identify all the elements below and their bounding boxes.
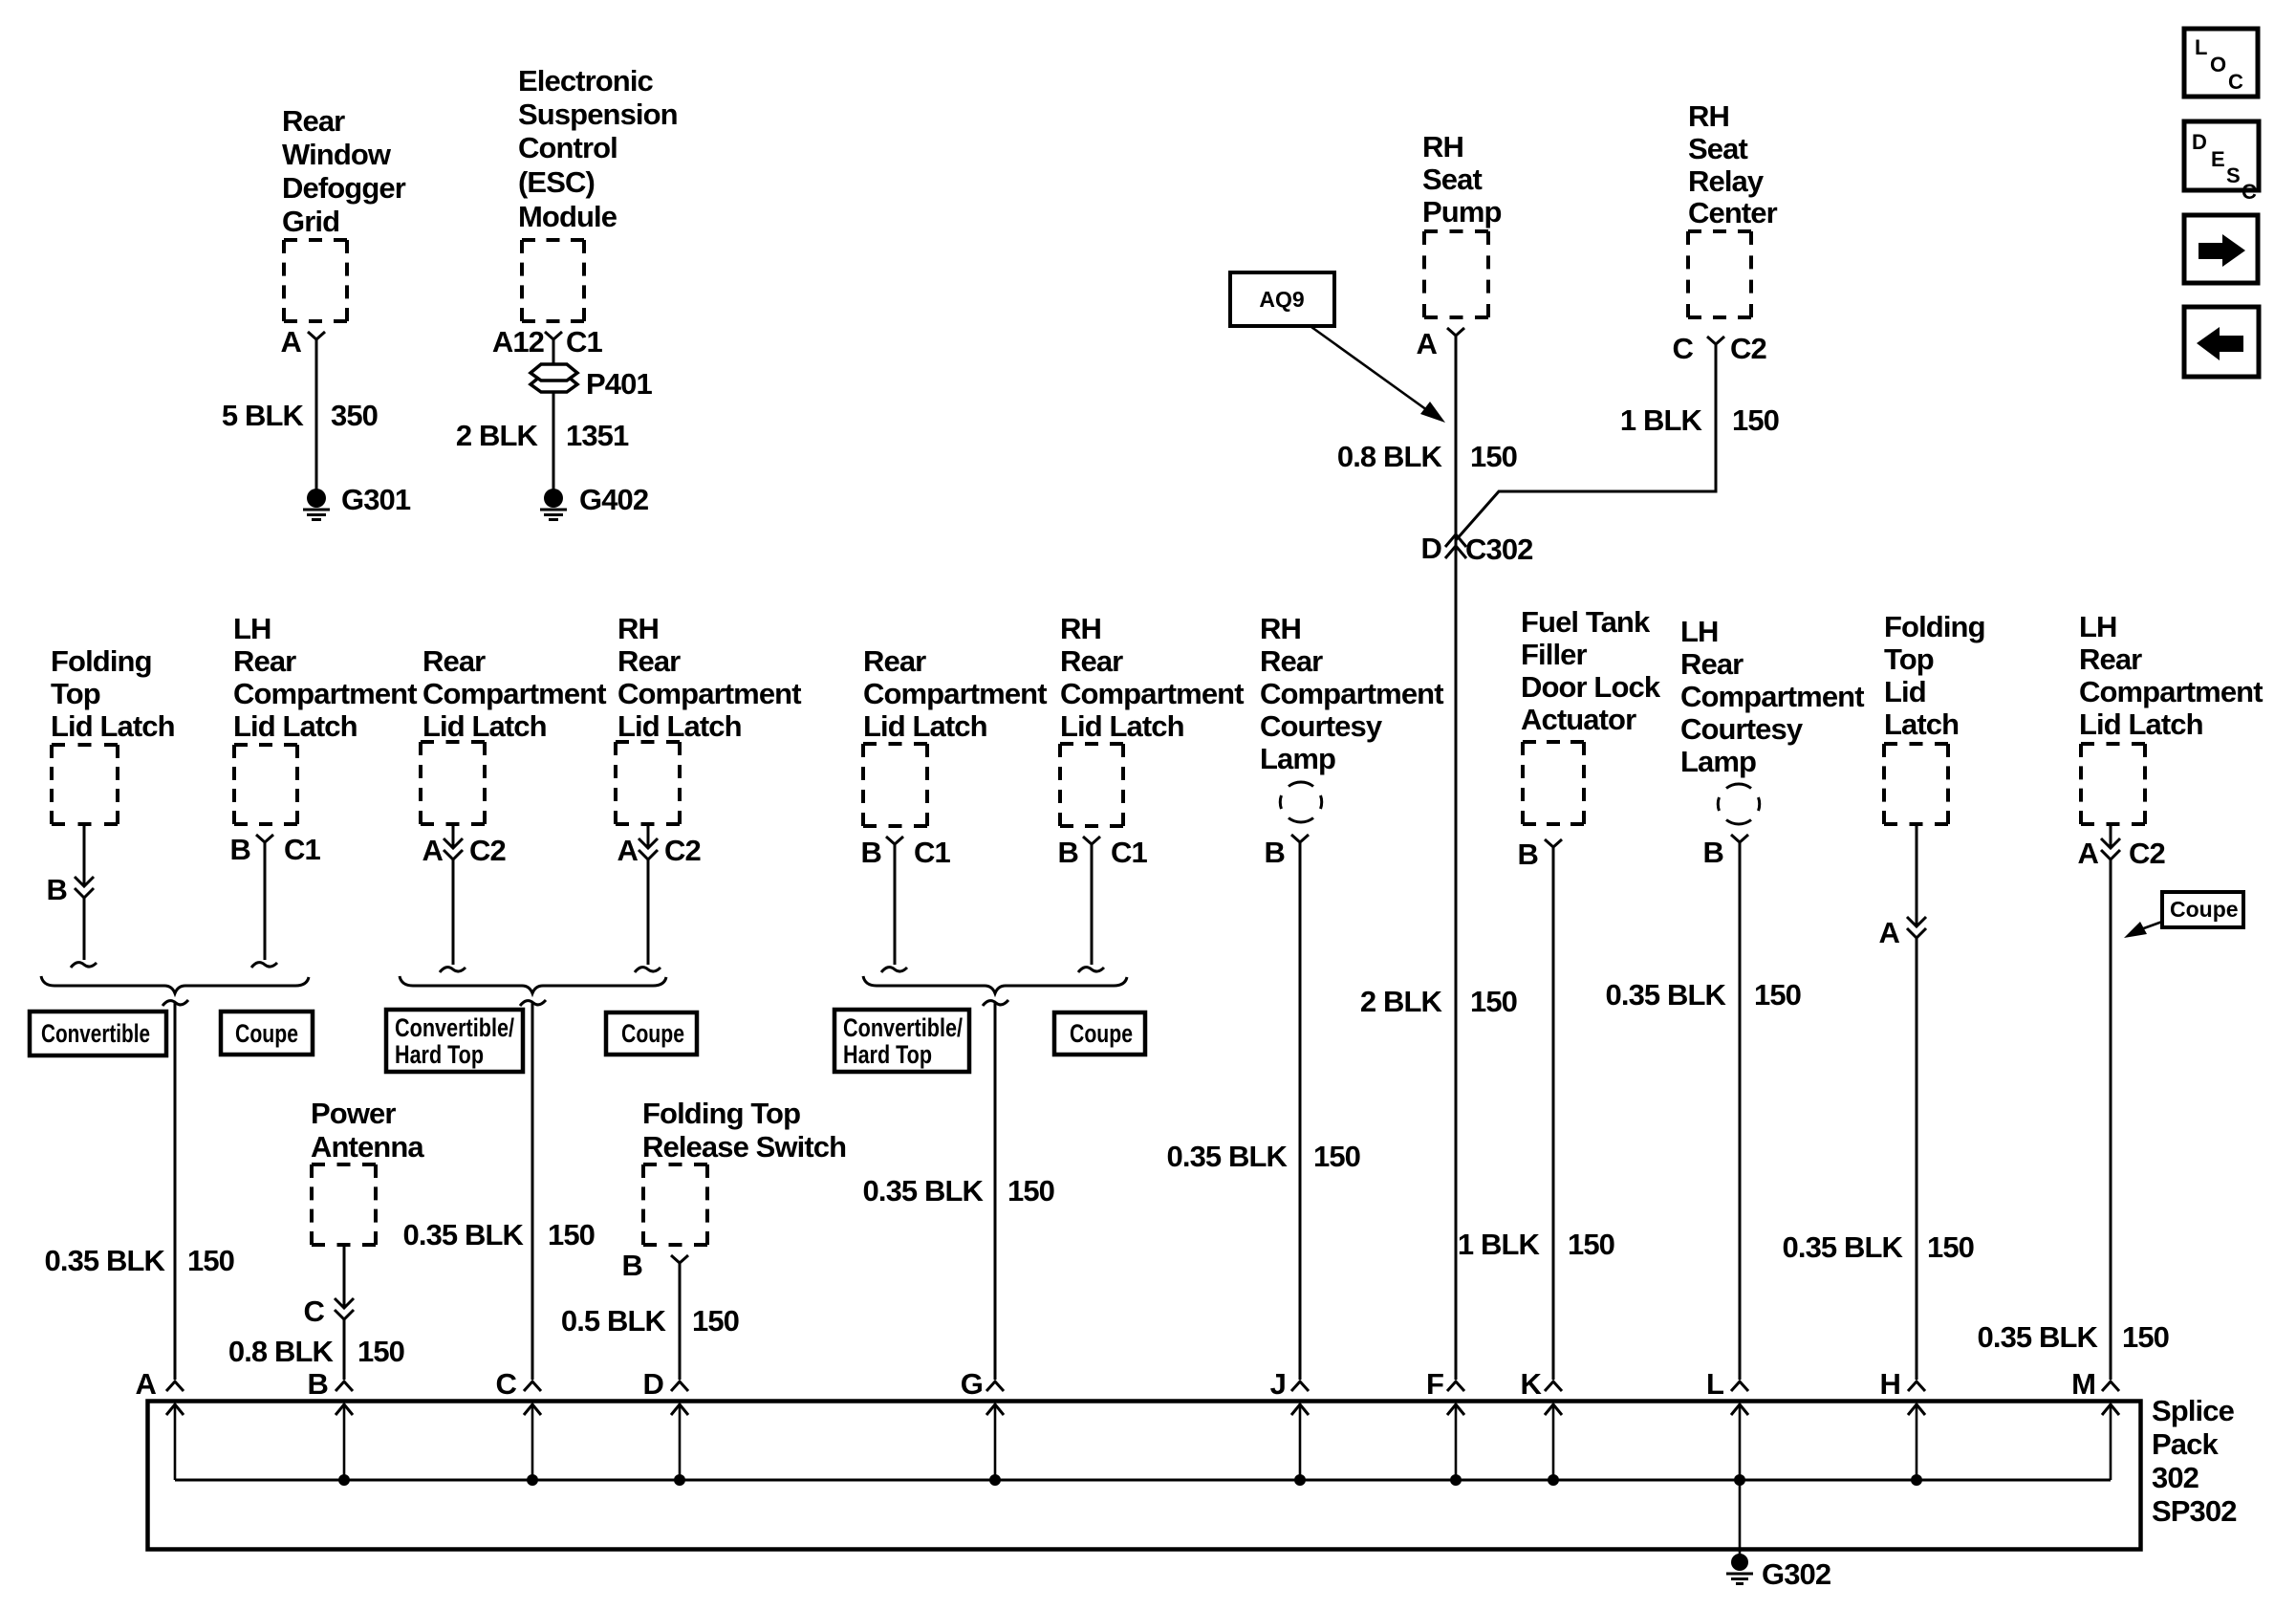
wire from brace to splice pack terminal C bbox=[531, 1003, 534, 1380]
pin A12 C1 of ESC bbox=[492, 325, 603, 359]
label 0.35 BLK 150 wire G bbox=[863, 1174, 1055, 1207]
svg-text:Module: Module bbox=[518, 200, 617, 233]
svg-text:P401: P401 bbox=[586, 367, 652, 401]
svg-text:Rear: Rear bbox=[422, 644, 486, 678]
svg-text:0.35 BLK: 0.35 BLK bbox=[1978, 1320, 2099, 1354]
pin C C2 of relay center bbox=[1673, 332, 1766, 365]
rear compartment lid latch label (first) bbox=[422, 644, 606, 743]
wire from rear compartment lid latch (first) bbox=[440, 824, 466, 972]
coupe callout box with arrow bbox=[2124, 892, 2243, 938]
svg-text:G302: G302 bbox=[1762, 1557, 1830, 1591]
label 0.35 BLK 150 wire J bbox=[1167, 1140, 1361, 1173]
svg-text:Folding: Folding bbox=[1884, 610, 1985, 643]
svg-text:Compartment: Compartment bbox=[863, 677, 1047, 710]
svg-text:SP302: SP302 bbox=[2152, 1494, 2237, 1528]
svg-text:Door Lock: Door Lock bbox=[1521, 670, 1661, 704]
svg-text:C2: C2 bbox=[469, 834, 506, 867]
pin B of LH courtesy lamp bbox=[1703, 835, 1749, 869]
folding top lid latch box (right) bbox=[1884, 744, 1948, 824]
pin A of pump bbox=[1417, 327, 1465, 360]
svg-text:0.8 BLK: 0.8 BLK bbox=[228, 1335, 335, 1368]
pin B of folding top lid latch bbox=[47, 873, 95, 906]
svg-text:150: 150 bbox=[548, 1218, 595, 1251]
svg-text:Rear: Rear bbox=[1260, 644, 1323, 678]
LH rear compartment lid latch label (right) bbox=[2079, 610, 2263, 741]
svg-text:Hard Top: Hard Top bbox=[395, 1040, 484, 1069]
svg-text:Lid Latch: Lid Latch bbox=[422, 709, 547, 743]
LH rear compartment lid latch box (right) bbox=[2081, 744, 2145, 824]
svg-text:AQ9: AQ9 bbox=[1259, 287, 1304, 312]
bus line inside splice pack bbox=[175, 1479, 2111, 1482]
pin B of fuel tank actuator bbox=[1518, 838, 1563, 871]
svg-text:Seat: Seat bbox=[1688, 132, 1747, 165]
svg-text:Compartment: Compartment bbox=[1680, 680, 1864, 713]
fuel tank filler door lock actuator box bbox=[1523, 742, 1584, 824]
svg-text:Window: Window bbox=[282, 138, 392, 171]
terminal D bbox=[643, 1367, 689, 1486]
svg-text:Release Switch: Release Switch bbox=[642, 1130, 846, 1164]
RH rear compartment lid latch box (second) bbox=[1060, 744, 1123, 826]
brace convertible/hard top group 1 bbox=[400, 976, 666, 1006]
svg-text:Latch: Latch bbox=[1884, 707, 1959, 741]
svg-text:Rear: Rear bbox=[1060, 644, 1123, 678]
svg-text:Convertible/: Convertible/ bbox=[843, 1013, 963, 1042]
svg-text:Compartment: Compartment bbox=[2079, 675, 2263, 708]
ESC module box bbox=[522, 240, 584, 321]
svg-text:150: 150 bbox=[692, 1304, 739, 1338]
svg-text:150: 150 bbox=[1754, 978, 1801, 1012]
pin C of power antenna bbox=[304, 1295, 355, 1328]
svg-text:Fuel Tank: Fuel Tank bbox=[1521, 605, 1651, 639]
label 0.8 BLK 150 bbox=[1337, 440, 1517, 473]
svg-text:G301: G301 bbox=[341, 483, 411, 516]
wire from brace to splice pack terminal G bbox=[994, 1003, 997, 1380]
svg-text:150: 150 bbox=[2122, 1320, 2169, 1354]
svg-text:C302: C302 bbox=[1465, 533, 1533, 566]
svg-text:Folding Top: Folding Top bbox=[642, 1097, 800, 1130]
svg-text:A: A bbox=[617, 834, 639, 867]
svg-text:150: 150 bbox=[1470, 985, 1517, 1018]
svg-text:A: A bbox=[1417, 327, 1438, 360]
pin B C1 of LH rear compartment lid latch bbox=[230, 833, 321, 866]
wire from rear compartment lid latch (second) bbox=[881, 844, 907, 972]
label 1 BLK 150 bbox=[1620, 403, 1779, 437]
rear compartment lid latch box (first) bbox=[421, 742, 485, 824]
svg-text:C2: C2 bbox=[664, 834, 701, 867]
coupe label box 1 bbox=[221, 1012, 313, 1055]
svg-text:Compartment: Compartment bbox=[1060, 677, 1244, 710]
svg-text:F: F bbox=[1426, 1367, 1443, 1401]
svg-text:Lid Latch: Lid Latch bbox=[51, 709, 175, 743]
svg-text:150: 150 bbox=[1568, 1228, 1614, 1261]
svg-text:Compartment: Compartment bbox=[1260, 677, 1443, 710]
svg-text:C: C bbox=[2242, 180, 2257, 204]
terminal A bbox=[136, 1367, 184, 1480]
svg-text:C2: C2 bbox=[2129, 837, 2165, 870]
terminal H bbox=[1880, 1367, 1926, 1486]
terminal F bbox=[1426, 1367, 1464, 1486]
wire 5 BLK 350 bbox=[315, 339, 318, 490]
svg-text:Suspension: Suspension bbox=[518, 98, 678, 131]
svg-text:0.35 BLK: 0.35 BLK bbox=[1783, 1230, 1904, 1264]
svg-text:Splice: Splice bbox=[2152, 1394, 2235, 1427]
svg-text:Rear: Rear bbox=[233, 644, 296, 678]
svg-text:B: B bbox=[1518, 838, 1539, 871]
splice pack 302 box bbox=[148, 1402, 2141, 1550]
LH courtesy lamp symbol bbox=[1718, 784, 1759, 824]
svg-text:D: D bbox=[1421, 532, 1442, 565]
svg-text:(ESC): (ESC) bbox=[518, 165, 595, 199]
RH rear compartment courtesy lamp label bbox=[1260, 612, 1443, 775]
terminal G bbox=[961, 1367, 1004, 1486]
svg-text:B: B bbox=[47, 873, 68, 906]
svg-text:Compartment: Compartment bbox=[233, 677, 417, 710]
svg-text:RH: RH bbox=[1060, 612, 1101, 645]
rear window defogger grid label bbox=[282, 104, 406, 238]
svg-text:Rear: Rear bbox=[617, 644, 681, 678]
svg-text:Lid Latch: Lid Latch bbox=[233, 709, 357, 743]
svg-text:E: E bbox=[2211, 147, 2225, 171]
svg-text:Coupe: Coupe bbox=[621, 1019, 684, 1048]
svg-text:C1: C1 bbox=[566, 325, 602, 359]
label 2 BLK 150 bbox=[1360, 985, 1517, 1018]
svg-text:B: B bbox=[1703, 836, 1724, 869]
svg-text:Lid Latch: Lid Latch bbox=[2079, 707, 2203, 741]
svg-text:B: B bbox=[1265, 836, 1286, 869]
svg-text:Pump: Pump bbox=[1422, 195, 1502, 228]
wire from LH courtesy lamp to terminal L bbox=[1739, 842, 1742, 1380]
svg-text:G: G bbox=[961, 1367, 983, 1401]
pin A C2 of LH rear compartment lid latch (right) bbox=[2078, 837, 2165, 870]
svg-text:Lid Latch: Lid Latch bbox=[1060, 709, 1184, 743]
svg-text:Actuator: Actuator bbox=[1521, 703, 1636, 736]
svg-text:150: 150 bbox=[1732, 403, 1779, 437]
RH rear compartment lid latch label (first) bbox=[617, 612, 801, 743]
svg-text:G402: G402 bbox=[579, 483, 648, 516]
svg-text:D: D bbox=[643, 1367, 664, 1401]
svg-text:A: A bbox=[136, 1367, 157, 1401]
svg-text:C1: C1 bbox=[914, 836, 950, 869]
ground G301 bbox=[303, 483, 411, 520]
folding top lid latch box (left) bbox=[52, 745, 118, 824]
svg-text:B: B bbox=[1058, 836, 1079, 869]
svg-text:Center: Center bbox=[1688, 196, 1778, 229]
wire from LH rear compartment lid latch (right) to terminal M bbox=[2110, 824, 2112, 1380]
left arrow icon box bbox=[2184, 307, 2259, 377]
LH rear compartment lid latch box bbox=[234, 745, 297, 824]
svg-text:0.5 BLK: 0.5 BLK bbox=[561, 1304, 667, 1338]
svg-text:Convertible/: Convertible/ bbox=[395, 1013, 514, 1042]
svg-text:150: 150 bbox=[357, 1335, 404, 1368]
svg-text:Lamp: Lamp bbox=[1680, 745, 1756, 778]
terminal C bbox=[496, 1367, 542, 1486]
terminal M bbox=[2071, 1367, 2119, 1480]
svg-text:C: C bbox=[1673, 332, 1694, 365]
svg-text:A: A bbox=[2078, 837, 2099, 870]
ground G302 drop bbox=[1726, 1480, 1830, 1591]
brace convertible group bbox=[41, 976, 309, 1006]
svg-text:Hard Top: Hard Top bbox=[843, 1040, 932, 1069]
label 2 BLK 1351 bbox=[456, 419, 629, 452]
svg-text:Control: Control bbox=[518, 131, 617, 164]
wire from RH courtesy lamp to terminal J bbox=[1299, 842, 1302, 1380]
svg-text:Antenna: Antenna bbox=[311, 1130, 424, 1164]
svg-text:0.35 BLK: 0.35 BLK bbox=[403, 1218, 525, 1251]
brace convertible/hard top group 2 bbox=[863, 976, 1127, 1006]
pin B of RH courtesy lamp bbox=[1265, 835, 1310, 869]
svg-text:2 BLK: 2 BLK bbox=[456, 419, 539, 452]
svg-text:B: B bbox=[230, 833, 251, 866]
RH seat pump box bbox=[1424, 231, 1488, 317]
svg-text:Relay: Relay bbox=[1688, 164, 1765, 198]
svg-text:A: A bbox=[422, 834, 444, 867]
svg-text:Top: Top bbox=[51, 677, 100, 710]
RH rear compartment lid latch label (second) bbox=[1060, 612, 1244, 743]
pin A C2 of rear compartment lid latch (first) bbox=[422, 834, 506, 867]
svg-text:RH: RH bbox=[617, 612, 659, 645]
svg-text:Defogger: Defogger bbox=[282, 171, 406, 205]
svg-text:A: A bbox=[281, 325, 302, 359]
svg-text:0.35 BLK: 0.35 BLK bbox=[863, 1174, 985, 1207]
terminal J bbox=[1270, 1367, 1309, 1486]
svg-text:Seat: Seat bbox=[1422, 163, 1482, 196]
svg-text:1 BLK: 1 BLK bbox=[1620, 403, 1703, 437]
svg-text:RH: RH bbox=[1260, 612, 1301, 645]
svg-text:C: C bbox=[2228, 70, 2243, 94]
svg-text:5 BLK: 5 BLK bbox=[222, 399, 305, 432]
wire from brace to splice pack terminal A bbox=[174, 1003, 177, 1380]
svg-text:Lid: Lid bbox=[1884, 675, 1926, 708]
svg-text:Coupe: Coupe bbox=[2170, 897, 2239, 922]
folding top release switch box bbox=[643, 1164, 707, 1245]
svg-text:D: D bbox=[2192, 130, 2207, 154]
label 0.35 BLK 150 wire L bbox=[1606, 978, 1802, 1012]
svg-text:Rear: Rear bbox=[863, 644, 926, 678]
svg-text:L: L bbox=[1706, 1367, 1723, 1401]
svg-text:K: K bbox=[1521, 1367, 1543, 1401]
rear compartment lid latch label (second) bbox=[863, 644, 1047, 743]
wire from RH rear compartment lid latch (second) bbox=[1078, 844, 1104, 972]
wire from pump to splice pack terminal F bbox=[1455, 336, 1458, 1380]
rear window defogger grid box bbox=[284, 240, 347, 321]
fuel tank filler door lock actuator label bbox=[1521, 605, 1661, 736]
coupe label box 2 bbox=[606, 1012, 697, 1055]
right arrow icon box bbox=[2184, 215, 2258, 283]
svg-text:Coupe: Coupe bbox=[235, 1019, 298, 1048]
svg-text:Lid Latch: Lid Latch bbox=[863, 709, 987, 743]
power antenna box bbox=[312, 1164, 376, 1245]
svg-text:M: M bbox=[2071, 1367, 2095, 1401]
DESC icon box bbox=[2184, 121, 2259, 204]
pin A of folding top lid latch (right) bbox=[1879, 916, 1927, 949]
svg-text:Compartment: Compartment bbox=[617, 677, 801, 710]
svg-text:Coupe: Coupe bbox=[1070, 1019, 1133, 1048]
splice pack label bbox=[2152, 1394, 2237, 1528]
svg-text:0.8 BLK: 0.8 BLK bbox=[1337, 440, 1443, 473]
power antenna label bbox=[311, 1097, 424, 1164]
svg-text:S: S bbox=[2226, 163, 2241, 187]
grommet P401 bbox=[531, 364, 652, 401]
svg-text:L: L bbox=[2195, 35, 2207, 59]
svg-text:Convertible: Convertible bbox=[41, 1019, 150, 1048]
svg-text:LH: LH bbox=[1680, 615, 1719, 648]
pin B C1 of rear compartment lid latch (second) bbox=[861, 836, 951, 869]
RH rear compartment lid latch box (first) bbox=[616, 742, 680, 824]
pin B C1 of RH rear compartment lid latch (second) bbox=[1058, 836, 1148, 869]
rear compartment lid latch box (second) bbox=[863, 744, 927, 826]
svg-text:RH: RH bbox=[1688, 99, 1729, 133]
svg-text:Lamp: Lamp bbox=[1260, 742, 1335, 775]
ground G402 bbox=[540, 483, 648, 520]
folding top lid latch label (left) bbox=[51, 644, 175, 743]
wire from power antenna to terminal B bbox=[343, 1245, 346, 1380]
svg-text:0.35 BLK: 0.35 BLK bbox=[1167, 1140, 1289, 1173]
svg-text:C1: C1 bbox=[284, 833, 320, 866]
label 0.35 BLK 150 wire M bbox=[1978, 1320, 2170, 1354]
svg-text:1351: 1351 bbox=[566, 419, 629, 452]
wire from fuel tank actuator to terminal K bbox=[1552, 847, 1555, 1380]
wire from LH rear compartment lid latch bbox=[251, 842, 277, 968]
svg-text:RH: RH bbox=[1422, 130, 1463, 163]
label 5 BLK 350 bbox=[222, 399, 378, 432]
LOC icon box bbox=[2184, 29, 2258, 97]
AQ9 arrow bbox=[1311, 327, 1445, 423]
wire 2 BLK 1351 bbox=[552, 339, 555, 490]
svg-text:0.35 BLK: 0.35 BLK bbox=[1606, 978, 1727, 1012]
pin B of folding top release switch bbox=[622, 1249, 689, 1282]
svg-text:Rear: Rear bbox=[2079, 642, 2142, 676]
svg-text:LH: LH bbox=[2079, 610, 2117, 643]
svg-text:LH: LH bbox=[233, 612, 271, 645]
terminal L bbox=[1706, 1367, 1748, 1486]
coupe label box 3 bbox=[1054, 1012, 1145, 1055]
RH seat relay center box bbox=[1688, 231, 1751, 317]
svg-text:150: 150 bbox=[187, 1244, 234, 1277]
svg-text:B: B bbox=[622, 1249, 643, 1282]
folding top release switch label bbox=[642, 1097, 846, 1164]
svg-text:Pack: Pack bbox=[2152, 1427, 2219, 1461]
svg-text:2 BLK: 2 BLK bbox=[1360, 985, 1443, 1018]
wire 1 BLK 150 to C302 bbox=[1456, 344, 1716, 540]
svg-text:0.35 BLK: 0.35 BLK bbox=[45, 1244, 166, 1277]
convertible label box bbox=[30, 1012, 166, 1055]
svg-text:150: 150 bbox=[1927, 1230, 1974, 1264]
label 0.35 BLK 150 wire H bbox=[1783, 1230, 1975, 1264]
folding top lid latch label (right) bbox=[1884, 610, 1985, 741]
svg-text:A: A bbox=[1879, 916, 1900, 949]
svg-text:350: 350 bbox=[331, 399, 378, 432]
convertible/hard top label box 1 bbox=[386, 1010, 523, 1072]
svg-text:C1: C1 bbox=[1111, 836, 1147, 869]
terminal K bbox=[1521, 1367, 1563, 1486]
label 0.35 BLK 150 wire C bbox=[403, 1218, 596, 1251]
svg-text:150: 150 bbox=[1470, 440, 1517, 473]
svg-text:B: B bbox=[308, 1367, 329, 1401]
svg-text:Grid: Grid bbox=[282, 205, 339, 238]
svg-text:150: 150 bbox=[1313, 1140, 1360, 1173]
svg-text:Rear: Rear bbox=[1680, 647, 1744, 681]
svg-text:C: C bbox=[496, 1367, 517, 1401]
svg-text:Top: Top bbox=[1884, 642, 1934, 676]
svg-text:B: B bbox=[861, 836, 882, 869]
label 1 BLK 150 wire K bbox=[1458, 1228, 1614, 1261]
convertible/hard top label box 2 bbox=[834, 1010, 969, 1072]
svg-text:A12: A12 bbox=[492, 325, 544, 359]
svg-text:Lid Latch: Lid Latch bbox=[617, 709, 742, 743]
connector D C302 bbox=[1421, 532, 1533, 566]
svg-text:1 BLK: 1 BLK bbox=[1458, 1228, 1541, 1261]
wire from release switch to terminal D bbox=[679, 1263, 682, 1380]
RH seat pump label bbox=[1422, 130, 1502, 228]
svg-text:Courtesy: Courtesy bbox=[1260, 709, 1383, 743]
label 0.5 BLK 150 wire D bbox=[561, 1304, 739, 1338]
AQ9 callout box bbox=[1230, 272, 1334, 326]
pin A of defogger bbox=[281, 325, 326, 359]
svg-text:Compartment: Compartment bbox=[422, 677, 606, 710]
svg-text:Filler: Filler bbox=[1521, 638, 1588, 671]
electronic suspension control (ESC) module label bbox=[518, 64, 678, 233]
svg-text:150: 150 bbox=[1007, 1174, 1054, 1207]
svg-text:C: C bbox=[304, 1295, 325, 1328]
svg-text:302: 302 bbox=[2152, 1461, 2199, 1494]
pin A C2 of RH rear compartment lid latch (first) bbox=[617, 834, 701, 867]
label 0.8 BLK 150 wire B bbox=[228, 1335, 404, 1368]
svg-text:O: O bbox=[2210, 53, 2226, 76]
svg-text:Folding: Folding bbox=[51, 644, 152, 678]
svg-text:Power: Power bbox=[311, 1097, 396, 1130]
wire from folding top lid latch bbox=[71, 824, 97, 968]
svg-text:C2: C2 bbox=[1730, 332, 1766, 365]
LH rear compartment lid latch label bbox=[233, 612, 417, 743]
svg-text:J: J bbox=[1270, 1367, 1286, 1401]
terminal B bbox=[308, 1367, 354, 1486]
label 0.35 BLK 150 wire A bbox=[45, 1244, 235, 1277]
svg-text:Courtesy: Courtesy bbox=[1680, 712, 1804, 746]
LH rear compartment courtesy lamp label bbox=[1680, 615, 1864, 778]
RH courtesy lamp symbol bbox=[1280, 782, 1321, 822]
svg-text:Rear: Rear bbox=[282, 104, 345, 138]
wire from RH rear compartment lid latch (first) bbox=[635, 824, 661, 972]
svg-text:H: H bbox=[1880, 1367, 1901, 1401]
wire from folding top lid latch (right) to terminal H bbox=[1916, 824, 1918, 1380]
RH seat relay center label bbox=[1688, 99, 1778, 229]
svg-text:Electronic: Electronic bbox=[518, 64, 654, 98]
